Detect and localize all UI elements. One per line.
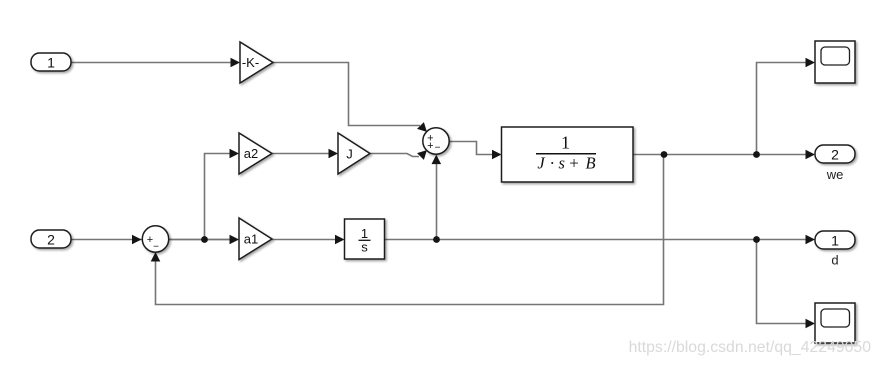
svg-text:−: − [435,142,441,153]
svg-text:https://blog.csdn.net/qq_42249: https://blog.csdn.net/qq_42249050 [629,339,872,356]
svg-text:-K-: -K- [242,55,259,70]
svg-text:s: s [361,240,368,255]
svg-text:·: · [550,153,556,172]
svg-text:B: B [585,153,595,172]
svg-text:+: + [427,140,433,152]
svg-text:we: we [826,167,844,182]
svg-text:+: + [569,153,579,172]
svg-text:2: 2 [831,146,839,162]
svg-text:−: − [153,241,159,252]
svg-text:s: s [558,153,564,172]
svg-text:1: 1 [831,232,839,248]
svg-text:2: 2 [47,231,55,247]
svg-text:a1: a1 [244,232,258,247]
svg-text:J: J [537,153,545,172]
svg-text:J: J [346,147,353,162]
svg-text:d: d [831,253,838,268]
svg-text:1: 1 [561,133,570,153]
svg-text:1: 1 [47,54,55,70]
svg-text:a2: a2 [244,146,258,161]
